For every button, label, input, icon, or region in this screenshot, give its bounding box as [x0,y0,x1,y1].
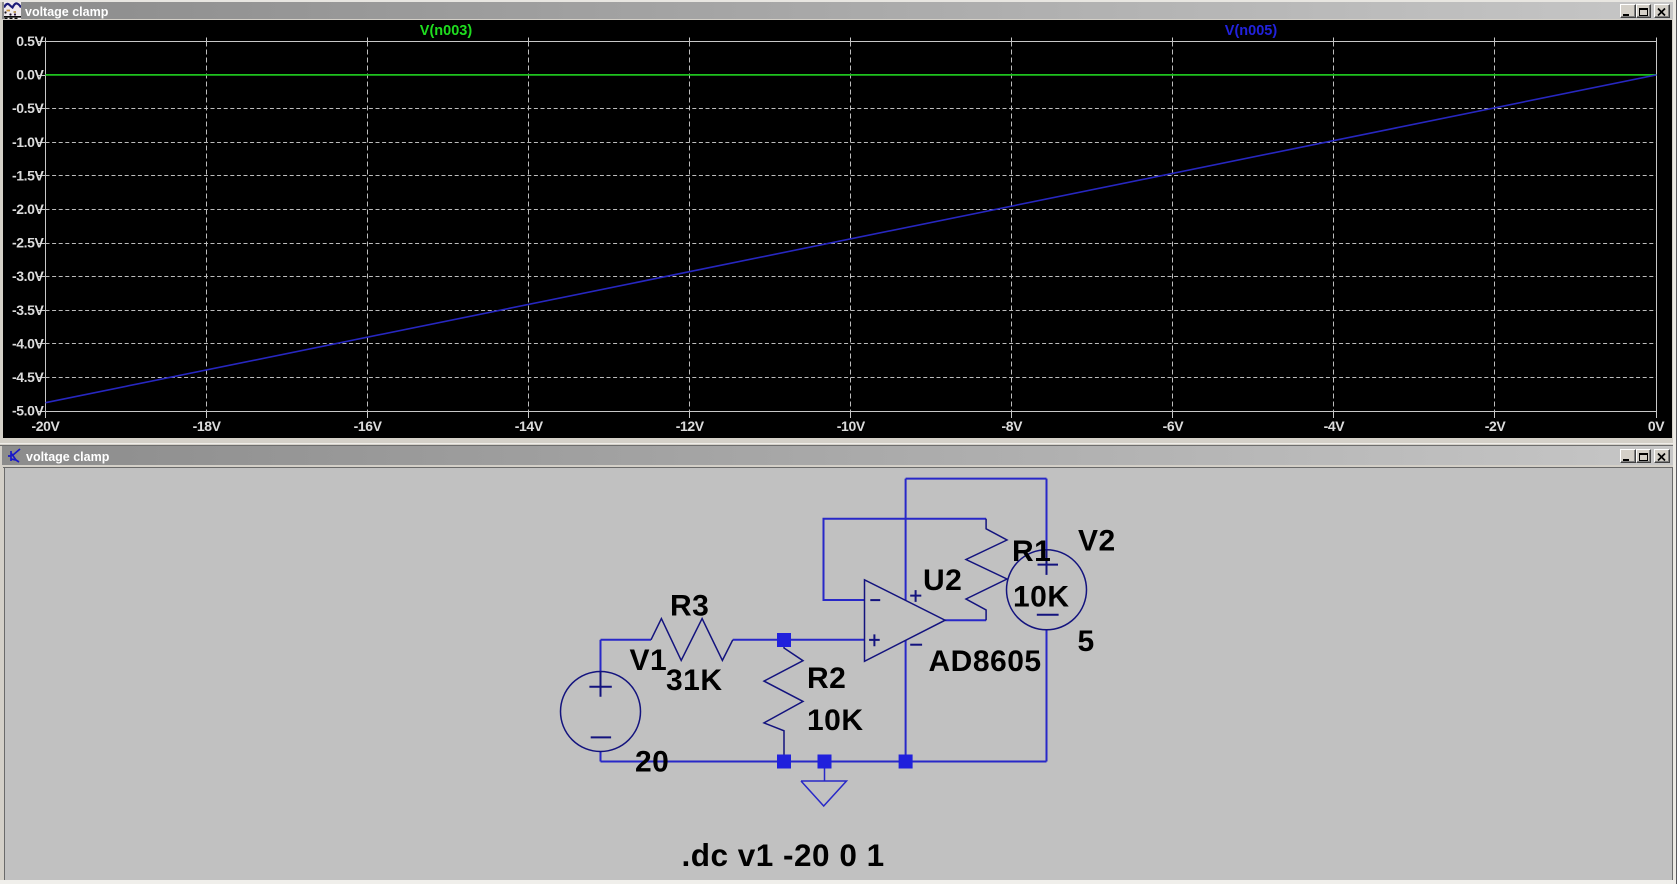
x-axis labels [32,418,1666,434]
svg-text:-14V: -14V [515,418,544,434]
svg-text:-8V: -8V [1002,418,1024,434]
svg-text:-1.0V: -1.0V [12,134,45,150]
op-amp V- label [910,644,922,646]
wire opamp output [945,619,986,621]
bottom edge highlight strip [0,880,1676,884]
green trace V(n003) [46,74,1657,76]
ground symbol [801,762,847,807]
svg-text:R1: R1 [1012,535,1051,568]
window 1 maximize button [1636,4,1651,18]
window 2 title bar [2,446,1673,465]
window 2 close button [1654,449,1670,463]
svg-text:-4.5V: -4.5V [12,369,45,385]
outer right edge highlight and shadow [1673,0,1676,884]
resistor R2 body [764,640,803,762]
window 1 black plot client area [3,20,1672,438]
op-amp U2 triangle [865,580,946,662]
voltage source V2 circle [1007,550,1087,630]
wire V1 top lead [600,640,602,672]
window 2 title text [26,450,109,464]
V2 minus sign [1037,614,1059,616]
V2 plus sign [1038,550,1059,575]
svg-text:-12V: -12V [676,418,705,434]
op-amp V+ label [910,590,921,602]
junction node R3/R2/in+ [777,633,791,647]
window 2 minimize button [1620,449,1636,463]
svg-text:0.5V: 0.5V [16,33,44,49]
window 1 title icon (waveform) [4,2,21,19]
window 1 title text [25,5,108,19]
svg-text:V(n003): V(n003) [420,23,473,39]
junction node ground tap [818,755,832,769]
svg-text:-5.0V: -5.0V [12,403,45,419]
junction node R2/ground rail [777,755,791,769]
svg-text:-2.0V: -2.0V [12,201,45,217]
V1 plus sign [589,672,611,697]
svg-text:-2V: -2V [1485,418,1507,434]
svg-text:R3: R3 [670,590,709,623]
vertical dashed gridlines [207,42,1495,412]
svg-text:-4V: -4V [1324,418,1346,434]
svg-text:-1.5V: -1.5V [12,167,45,183]
wire V1 bottom lead [600,752,602,762]
window 1 outer highlight border [0,0,1677,2]
wire opamp V- pin to rail [905,640,907,761]
window 2 maximize button [1636,449,1651,463]
svg-text:AD8605: AD8605 [929,645,1042,678]
svg-text:-0.5V: -0.5V [12,100,45,116]
wire opamp V+ pin [905,479,907,601]
window 2 title icon (schematic opamp) [7,448,23,464]
wire V2 top lead [1046,479,1048,575]
V1 minus sign [591,736,611,738]
svg-text:U2: U2 [923,564,962,597]
svg-text:0V: 0V [1648,418,1665,434]
svg-text:10K: 10K [807,704,864,737]
plot pane border [46,42,1657,412]
window 1 minimize button [1620,4,1636,18]
voltage source V1 circle [561,672,641,752]
wire top power rail (V+ to V2+) [906,478,1047,480]
svg-text:-20V: -20V [32,418,61,434]
svg-text:-3.0V: -3.0V [12,268,45,284]
window 2 sunken edge above client [3,467,1673,468]
svg-text:.dc v1 -20 0 1: .dc v1 -20 0 1 [682,837,885,873]
window 2 schematic client area [4,468,5,880]
wire V2 bottom lead [1046,630,1048,762]
op-amp in+ label [869,634,880,646]
resistor R3 body [651,619,733,661]
resistor R1 body [966,519,1007,621]
horizontal dashed gridlines [46,75,1657,378]
svg-text:R2: R2 [807,662,846,695]
svg-text:V2: V2 [1078,525,1116,558]
wire V1 to R3 [601,639,652,641]
svg-text:-3.5V: -3.5V [12,302,45,318]
wire feedback loop out to in- [824,519,987,600]
svg-text:31K: 31K [666,664,723,697]
svg-text:-4.0V: -4.0V [12,335,45,351]
window 1 close button [1654,4,1670,18]
svg-text:10K: 10K [1013,581,1070,614]
svg-text:-2.5V: -2.5V [12,235,45,251]
svg-text:-6V: -6V [1163,418,1185,434]
blue trace V(n005) [46,75,1657,403]
junction node V- rail [899,755,913,769]
window 2 outer highlight border [0,443,1677,444]
svg-text:0.0V: 0.0V [16,67,44,83]
svg-text:-16V: -16V [354,418,383,434]
axis tick marks [38,38,1657,419]
y-axis labels [12,33,45,419]
svg-text:V1: V1 [630,644,668,677]
wire R3 to opamp in+ [733,639,865,641]
svg-text:-18V: -18V [193,418,222,434]
op-amp in- label [870,599,880,601]
svg-text:V(n005): V(n005) [1225,23,1278,39]
svg-text:20: 20 [635,746,669,779]
wire bottom ground rail [601,761,1047,763]
window 1 title bar [2,2,1675,19]
svg-text:5: 5 [1078,625,1095,658]
svg-text:-10V: -10V [837,418,866,434]
